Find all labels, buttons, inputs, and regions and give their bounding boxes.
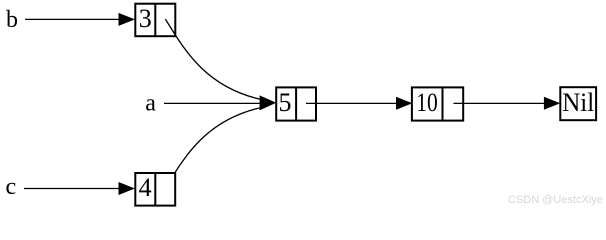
node 10 divider <box>442 87 444 120</box>
node 3 box <box>135 4 175 37</box>
svg-text:3: 3 <box>139 4 152 33</box>
node 10 box <box>412 87 463 120</box>
node Nil box <box>560 87 596 120</box>
wire curve 3 to 5 <box>165 19 262 100</box>
node 3 divider <box>154 4 156 37</box>
arrowhead into node 10 <box>396 97 412 110</box>
node 5 box <box>276 87 316 120</box>
wire 10 to Nil <box>454 102 546 104</box>
node 5 divider <box>295 87 297 120</box>
arrowhead into node 5 (merged) <box>260 95 277 110</box>
svg-text:a: a <box>145 91 156 117</box>
node 4 divider <box>154 173 156 206</box>
arrowhead into Nil <box>544 97 560 110</box>
svg-text:CSDN @UestcXiye: CSDN @UestcXiye <box>508 194 603 206</box>
svg-text:c: c <box>6 174 17 200</box>
wire c arrow line <box>24 188 120 190</box>
wire curve 4 to 5 <box>165 107 262 188</box>
svg-text:b: b <box>6 7 18 33</box>
node 4 box <box>135 173 175 206</box>
wire 5 to 10 <box>306 102 397 104</box>
svg-text:10: 10 <box>416 88 438 117</box>
svg-text:4: 4 <box>139 173 152 202</box>
arrowhead b <box>119 13 135 26</box>
wire b arrow line <box>25 18 120 20</box>
svg-text:5: 5 <box>279 88 292 117</box>
svg-text:Nil: Nil <box>562 88 594 117</box>
arrowhead c <box>119 182 135 195</box>
wire a arrow line <box>164 102 263 104</box>
